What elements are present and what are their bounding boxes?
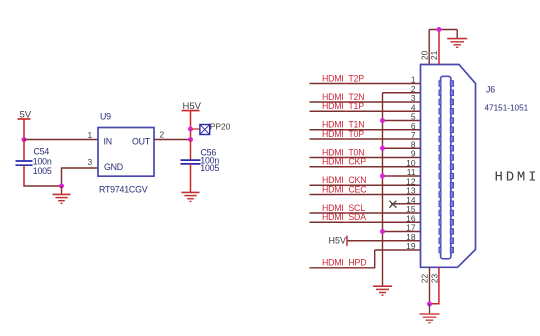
- wire to test point PP20: [191, 128, 201, 130]
- wire H5V pin18: [347, 240, 420, 242]
- node junction pin21 top: [437, 27, 442, 32]
- svg-text:U9: U9: [100, 112, 111, 122]
- wire pin21: [438, 30, 440, 65]
- wire to U9 IN: [24, 139, 98, 141]
- svg-text:HDMI_SDA: HDMI_SDA: [322, 212, 366, 222]
- svg-text:OUT: OUT: [132, 137, 151, 147]
- wire HDMI_SCL pin15: [310, 212, 421, 214]
- wire HDMI_T0N pin9: [310, 157, 421, 159]
- node junction PP20 branch: [188, 127, 193, 132]
- svg-text:47151-1051: 47151-1051: [485, 104, 529, 113]
- wire pin19 HPD: [375, 249, 421, 251]
- value label C56: [200, 148, 219, 174]
- test point PP20: [200, 125, 210, 135]
- node junction GND: [59, 184, 64, 189]
- node junction OUT/H5V: [188, 137, 193, 142]
- wire pin17 shield: [383, 231, 421, 233]
- value label C54: [33, 147, 52, 177]
- wire HDMI_CEC pin13: [310, 194, 421, 196]
- wire C56 bottom stem: [190, 164, 192, 192]
- node junction trunk pin5: [380, 118, 385, 123]
- wire C54 to ground node: [23, 185, 61, 187]
- node junction trunk pin11: [380, 174, 385, 179]
- no-connect X pin14: [389, 201, 396, 208]
- connector blade: [441, 76, 451, 258]
- svg-text:C54: C54: [34, 147, 50, 157]
- ground symbol trunk: [373, 286, 392, 295]
- wire U9 OUT to H5V: [154, 139, 191, 141]
- svg-text:HDMI: HDMI: [495, 170, 540, 186]
- blade contact pads: [439, 81, 454, 253]
- svg-text:PP20: PP20: [210, 121, 231, 131]
- ground symbol bottom: [420, 304, 440, 323]
- wire C54 bottom stem: [23, 165, 25, 186]
- svg-text:HDMI_CEC: HDMI_CEC: [322, 184, 367, 194]
- wire pin8 shield: [383, 147, 421, 149]
- svg-text:GND: GND: [104, 162, 123, 172]
- wire ground trunk: [382, 93, 384, 286]
- svg-text:HDMI_T1P: HDMI_T1P: [322, 101, 364, 111]
- wire pin23: [430, 267, 439, 303]
- wire HDMI_CKN pin12: [310, 184, 421, 186]
- power symbol H5V: [182, 101, 202, 112]
- svg-text:J6: J6: [486, 85, 495, 95]
- wire HDMI_T1P pin4: [310, 110, 421, 112]
- wire U9 GND pin: [62, 168, 99, 186]
- wire pin22: [429, 267, 431, 304]
- wire pin14 no-connect stub: [391, 203, 421, 205]
- svg-text:HDMI_T2P: HDMI_T2P: [322, 73, 364, 83]
- wire pin5 shield: [383, 120, 421, 122]
- svg-text:23: 23: [429, 274, 439, 284]
- wire HDMI_T0P pin7: [310, 138, 421, 140]
- node junction pin22/23: [427, 302, 432, 307]
- svg-text:1: 1: [88, 130, 93, 140]
- svg-text:HDMI_CKP: HDMI_CKP: [322, 157, 366, 167]
- svg-text:21: 21: [429, 50, 439, 60]
- svg-text:100n: 100n: [33, 156, 52, 166]
- ground symbol left: [53, 186, 71, 203]
- node junction 5V/C54/IN: [22, 137, 27, 142]
- wire C56 top stem: [190, 140, 192, 160]
- ground symbol top: [447, 30, 467, 48]
- capacitor C56: [181, 160, 201, 164]
- svg-text:19: 19: [406, 241, 416, 251]
- wire HDMI_HPD run: [310, 250, 375, 268]
- wire HDMI_T2P pin1: [310, 83, 421, 85]
- svg-text:IN: IN: [104, 137, 112, 147]
- ground symbol C56: [182, 192, 200, 201]
- wire C54 top stem: [23, 140, 25, 161]
- wire HDMI_CKP pin10: [310, 166, 421, 168]
- svg-text:1005: 1005: [200, 163, 219, 173]
- op-amp U9 regulator body: [98, 128, 154, 177]
- svg-text:1005: 1005: [33, 166, 52, 176]
- wire HDMI_T2N pin3: [310, 101, 421, 103]
- connector J6 body: [421, 65, 476, 268]
- capacitor C54: [16, 161, 33, 165]
- node junction trunk pin8: [380, 146, 385, 151]
- svg-text:H5V: H5V: [328, 236, 346, 246]
- svg-text:HDMI_HPD: HDMI_HPD: [322, 258, 366, 268]
- node junction trunk pin17: [380, 229, 385, 234]
- svg-text:2: 2: [160, 130, 165, 140]
- wire pin20: [428, 30, 430, 65]
- svg-text:RT9741CGV: RT9741CGV: [99, 185, 148, 195]
- power symbol 5V: [18, 110, 32, 121]
- svg-text:3: 3: [88, 157, 93, 167]
- wire pin11 shield: [383, 175, 421, 177]
- wire 5V stem: [23, 119, 25, 140]
- power tap H5V pin18: [328, 236, 347, 246]
- svg-text:HDMI_T0P: HDMI_T0P: [322, 129, 364, 139]
- svg-text:20: 20: [419, 50, 429, 60]
- wire top ground run: [429, 29, 457, 31]
- wire H5V stem: [190, 111, 192, 140]
- svg-text:22: 22: [420, 274, 430, 284]
- wire pin2 shield: [383, 92, 421, 94]
- wire HDMI_T1N pin6: [310, 129, 421, 131]
- wire HDMI_SDA pin16: [310, 221, 421, 223]
